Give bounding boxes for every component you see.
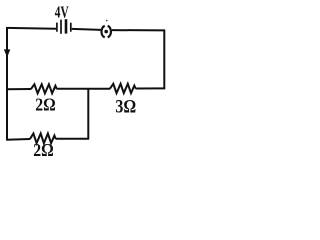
wire: bottom right segment [56, 138, 90, 140]
battery B1 4V: plate 1 (short) [56, 23, 58, 32]
wire: top middle segment (battery to lamp) [72, 29, 101, 30]
lamp (circle-dot symbol): left arc [101, 26, 104, 38]
resistor R1 2ohm (middle left zigzag) [31, 84, 57, 93]
wire: bottom left segment [6, 138, 30, 141]
wire: middle horizontal, left part (left wire to resistor 2ohm) [6, 88, 31, 90]
wire: top left segment (left corner to battery) [6, 27, 56, 30]
battery B1 4V: plate 4 (short) [70, 23, 72, 32]
battery B1 4V: plate 2 (long) [60, 20, 62, 34]
battery B1 4V: plate 3 (long thick) [65, 19, 68, 33]
lamp (circle-dot symbol): right arc [108, 26, 111, 38]
svg-text:2Ω: 2Ω [35, 95, 56, 115]
wire: middle horizontal, centre part (through junction to resistor 3ohm) [57, 88, 111, 90]
svg-text:4V: 4V [55, 3, 69, 22]
lamp (circle-dot symbol): small tick above [105, 20, 108, 21]
svg-text:3Ω: 3Ω [115, 98, 136, 118]
current arrow (downward) on left wire [4, 50, 10, 57]
resistor R3 2ohm (bottom zigzag) [30, 134, 56, 144]
resistor R2 3ohm (middle right zigzag) [110, 84, 136, 93]
lamp (circle-dot symbol): centre dot [104, 30, 108, 34]
wire: right vertical (top-right corner down to middle wire) [163, 30, 165, 90]
wire: junction vertical (middle wire down to bottom wire) [87, 89, 89, 140]
wire: left vertical (top-left corner down to bottom-left corner) [6, 27, 8, 140]
wire: middle horizontal, right part (3ohm to right wire) [135, 87, 165, 89]
wire: top right segment (lamp to top-right corner) [112, 29, 165, 31]
svg-text:2Ω: 2Ω [33, 140, 54, 160]
